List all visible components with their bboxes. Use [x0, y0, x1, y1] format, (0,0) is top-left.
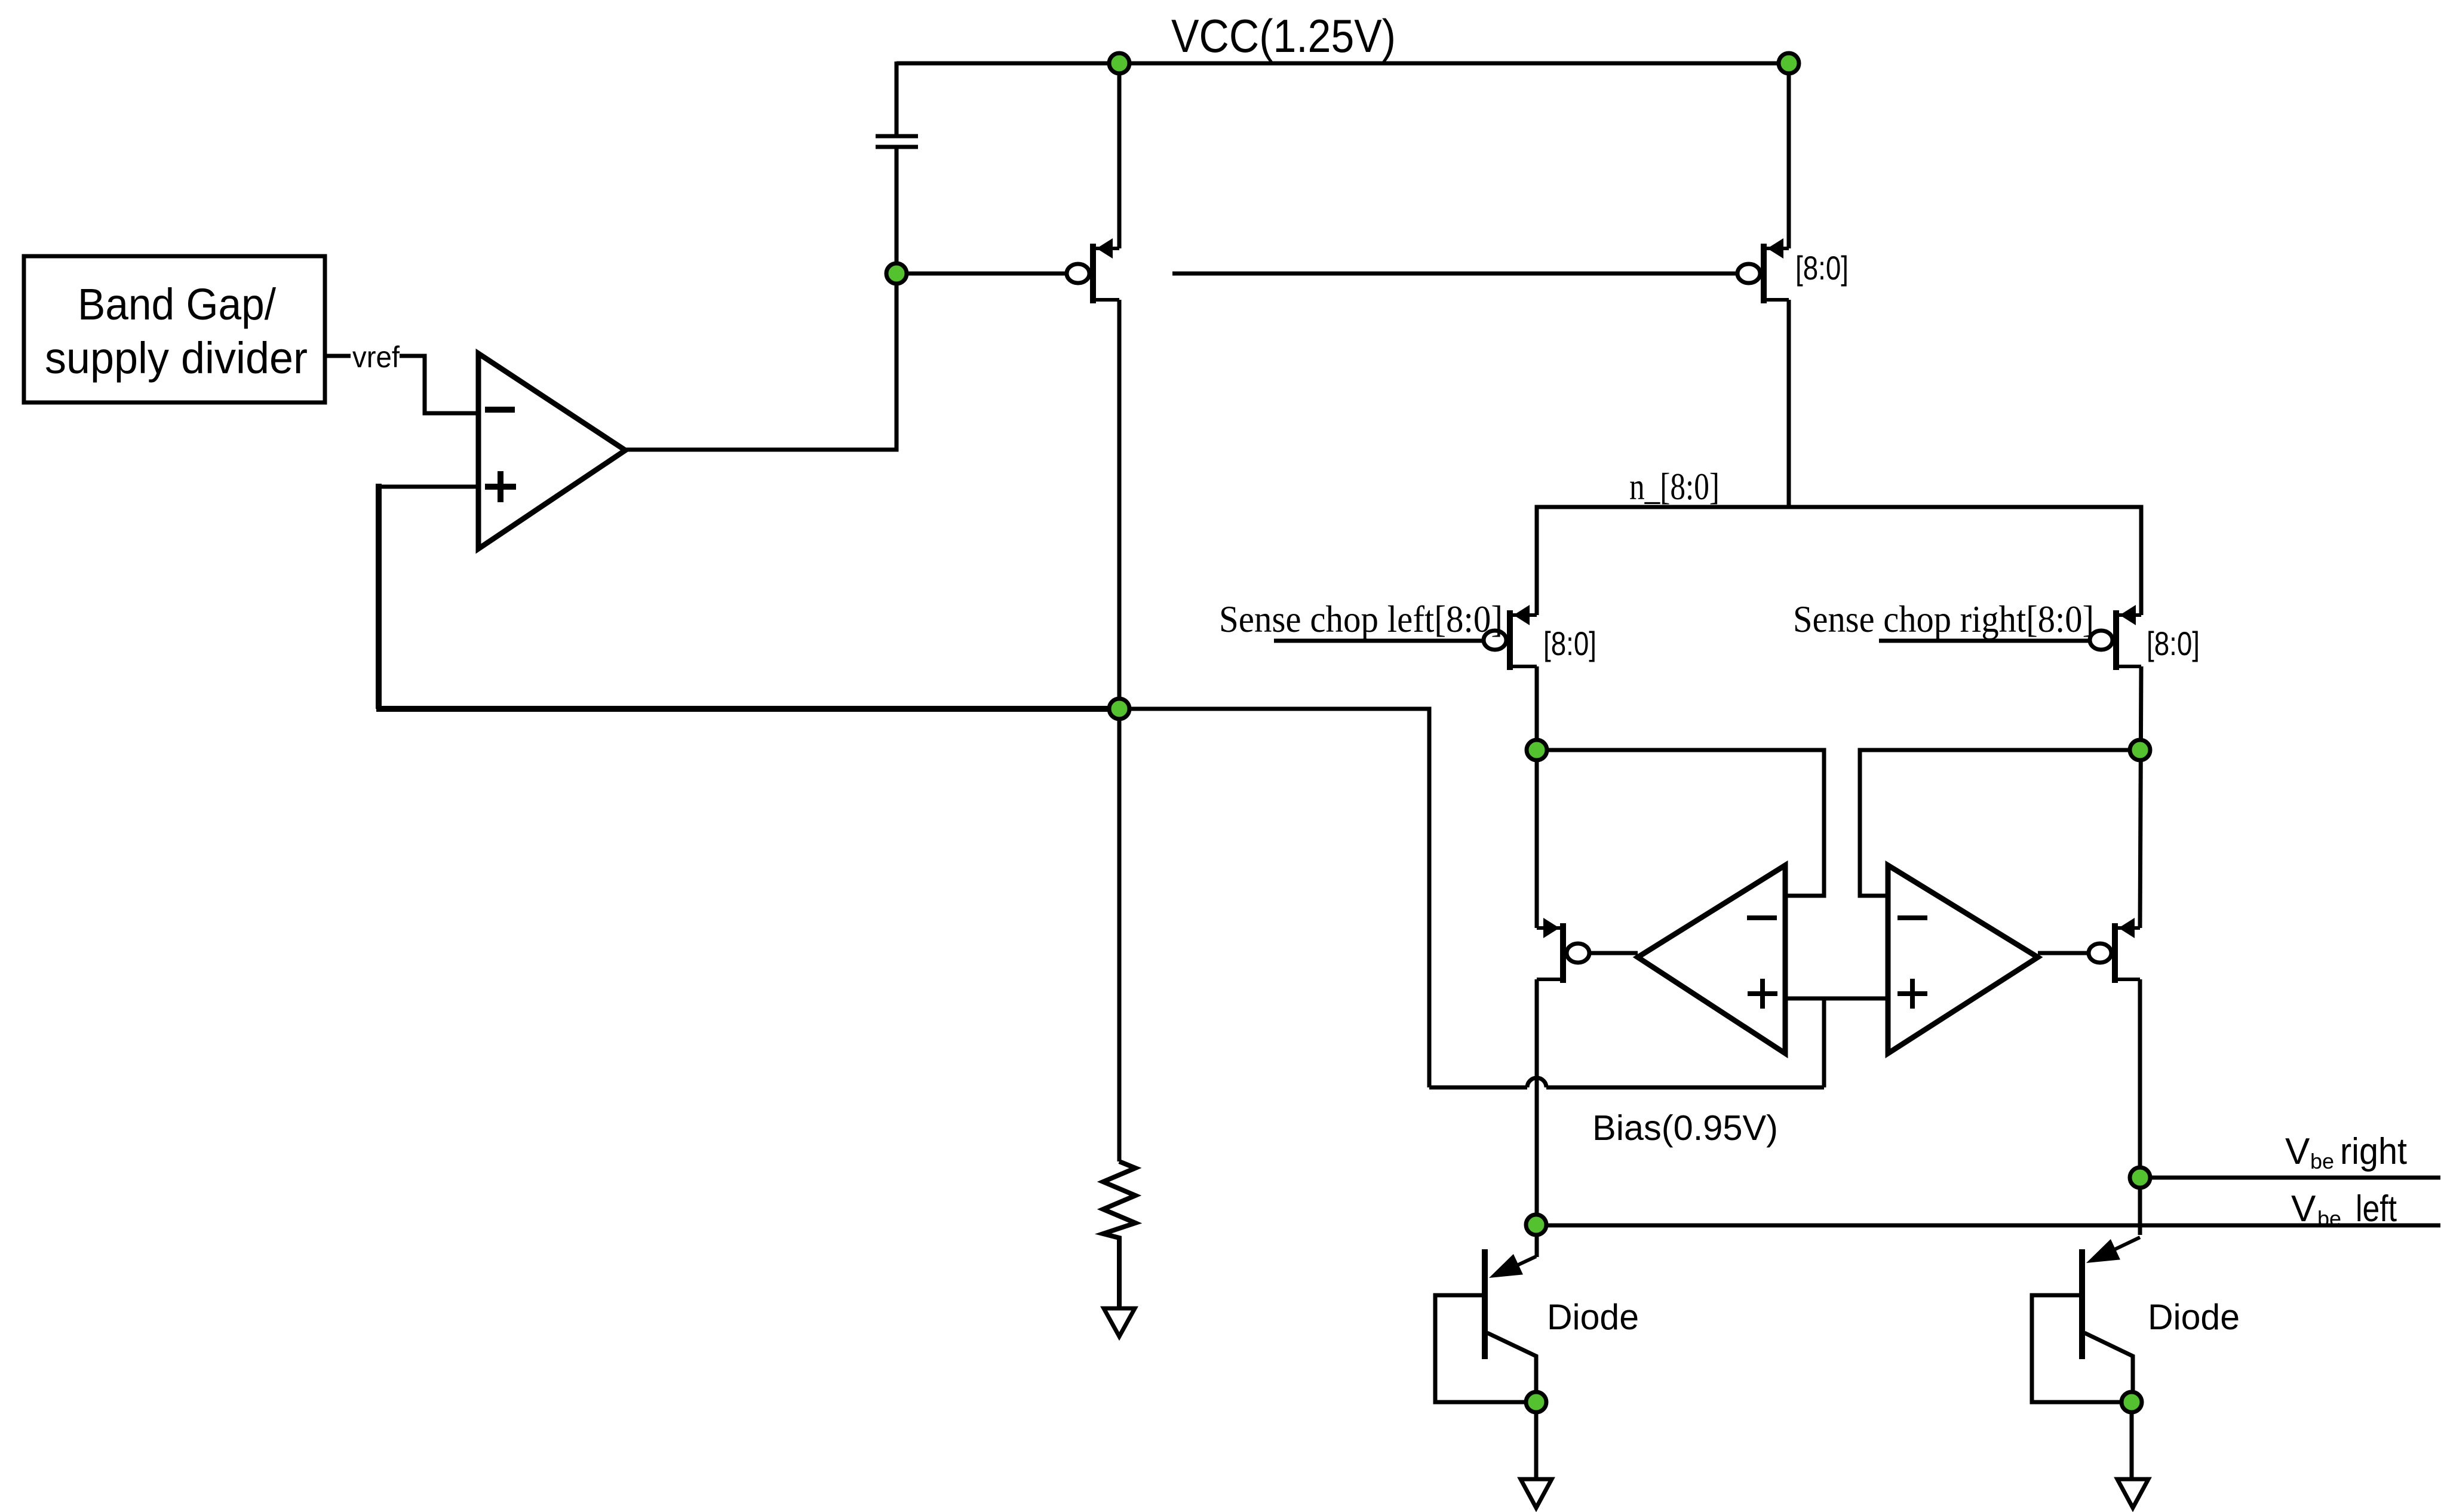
- svg-text:be: be: [2317, 1206, 2341, 1231]
- svg-text:Diode: Diode: [1547, 1297, 1639, 1337]
- svg-text:right: right: [2340, 1131, 2407, 1172]
- svg-text:supply divider: supply divider: [45, 333, 308, 383]
- svg-text:[8:0]: [8:0]: [1543, 625, 1596, 662]
- svg-text:V: V: [2285, 1131, 2310, 1172]
- svg-text:Sense chop right[8:0]: Sense chop right[8:0]: [1793, 598, 2094, 640]
- svg-text:VCC(1.25V): VCC(1.25V): [1171, 10, 1396, 62]
- svg-text:Band Gap/: Band Gap/: [78, 279, 276, 329]
- svg-text:n_[8:0]: n_[8:0]: [1629, 465, 1720, 508]
- svg-text:be: be: [2310, 1149, 2334, 1173]
- svg-text:[8:0]: [8:0]: [1795, 249, 1849, 287]
- svg-text:V: V: [2291, 1188, 2316, 1230]
- svg-text:Diode: Diode: [2148, 1297, 2240, 1337]
- svg-text:left: left: [2356, 1188, 2397, 1230]
- svg-text:[8:0]: [8:0]: [2147, 625, 2200, 662]
- svg-text:Bias(0.95V): Bias(0.95V): [1592, 1108, 1778, 1148]
- svg-text:vref: vref: [352, 340, 400, 374]
- svg-text:Sense chop left[8:0]: Sense chop left[8:0]: [1219, 598, 1503, 640]
